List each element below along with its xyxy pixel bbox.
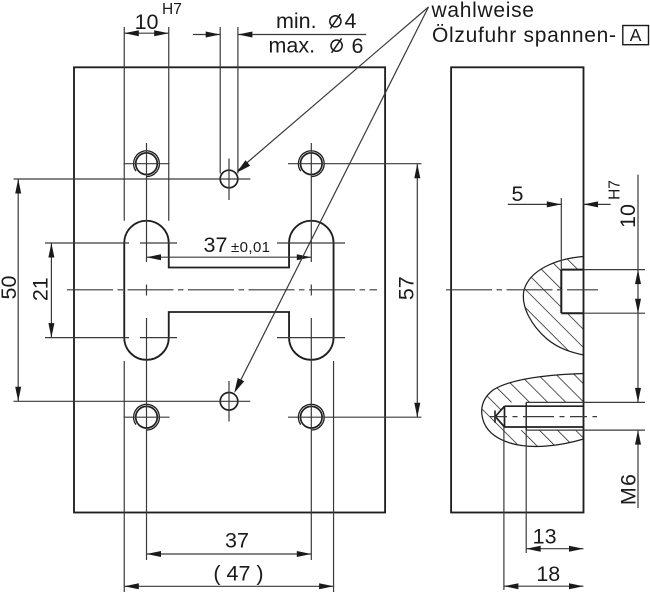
dim 13 line bbox=[526, 548, 583, 550]
hatch clear pocket bbox=[561, 270, 583, 314]
slot arc crosshair lower-right bbox=[277, 337, 345, 339]
bolt hole crosshair top-right + 57 extension bbox=[288, 163, 422, 165]
oil hole bottom vertical crosshair bbox=[228, 381, 230, 422]
dim 57 line bbox=[416, 164, 418, 418]
M6 core hole bbox=[505, 405, 584, 407]
bolt hole bottom-left bbox=[136, 406, 158, 428]
svg-text:Ölzufuhr spannen-: Ölzufuhr spannen- bbox=[432, 24, 617, 47]
bolt hole bottom-right bbox=[301, 406, 323, 428]
horizontal centerline left view bbox=[67, 289, 377, 291]
bolt hole crosshair bottom-left bbox=[124, 416, 170, 418]
oil hole top bbox=[220, 170, 238, 188]
svg-text:H7: H7 bbox=[162, 1, 182, 18]
slot arc crosshair upper-right bbox=[277, 242, 345, 244]
section hatch lower (M6 break-out) bbox=[482, 374, 584, 447]
right view centerline (slot) bbox=[446, 289, 598, 291]
break-out boundary lower bbox=[482, 374, 584, 447]
dim 5 extension line bbox=[560, 198, 562, 270]
dim 47 line bbox=[124, 585, 333, 587]
svg-text:50: 50 bbox=[0, 276, 21, 300]
svg-text:57: 57 bbox=[395, 276, 419, 300]
svg-text:±0,01: ±0,01 bbox=[231, 239, 270, 256]
vertical centerline right slots bbox=[310, 143, 312, 262]
dim 18 line bbox=[504, 585, 584, 587]
svg-text:37: 37 bbox=[225, 529, 249, 553]
extension line 50 bottom through oil hole bbox=[14, 400, 251, 402]
svg-text:H7: H7 bbox=[607, 180, 624, 200]
dim oil hole arrows bbox=[193, 34, 220, 36]
bolt hole crosshair top-left bbox=[124, 163, 170, 165]
pocket top edge + extension bbox=[561, 269, 583, 271]
dim 37 tol line bbox=[147, 256, 312, 258]
dim M6 lower tail bbox=[637, 430, 639, 508]
svg-text:max.: max. bbox=[269, 33, 316, 57]
svg-text:min.: min. bbox=[276, 9, 317, 33]
M6 drill cone bbox=[495, 406, 504, 427]
section hatch upper (slot break-out) bbox=[523, 257, 583, 356]
svg-text:wahlweise: wahlweise bbox=[431, 0, 535, 22]
hatch clear M6 hole bbox=[505, 402, 584, 430]
dim 47 extension lines bbox=[123, 361, 125, 592]
dim 13 extension line bbox=[525, 430, 527, 553]
dim 21 line bbox=[50, 243, 52, 338]
bolt hole top-right bbox=[301, 153, 323, 175]
dim 10 H7 extension lines bbox=[123, 27, 125, 221]
oil hole bottom bbox=[220, 393, 238, 411]
bolt hole top-left M? bbox=[136, 153, 158, 175]
dim 18 extension line bbox=[503, 427, 505, 590]
dim oil hole extension lines bbox=[219, 27, 221, 174]
dim 10 H7 vert line bbox=[637, 175, 639, 403]
right view outline bbox=[451, 67, 583, 512]
svg-text:10: 10 bbox=[616, 204, 640, 228]
pocket bottom edge + extension bbox=[561, 312, 583, 314]
extension line 50 top through oil hole bbox=[14, 178, 251, 180]
svg-text:A: A bbox=[630, 25, 642, 45]
M6 thread end line bbox=[525, 402, 527, 430]
svg-text:( 47 ): ( 47 ) bbox=[213, 562, 263, 586]
svg-text:6: 6 bbox=[352, 34, 364, 58]
M6 hole centerline bbox=[490, 416, 597, 418]
H-shaped slot cutout bbox=[124, 221, 333, 360]
bolt hole crosshair bottom-right + 57 extension bbox=[288, 416, 422, 418]
svg-text:4: 4 bbox=[345, 9, 357, 33]
break-out boundary upper bbox=[523, 257, 583, 356]
slot arc crosshair lower-left / 21 extension bottom bbox=[45, 337, 129, 339]
svg-text:M6: M6 bbox=[617, 473, 641, 505]
svg-text:21: 21 bbox=[29, 277, 53, 301]
svg-text:18: 18 bbox=[536, 562, 560, 586]
dim 10 H7 line bbox=[124, 32, 169, 34]
datum box A bbox=[623, 26, 649, 45]
leader to top oil hole bbox=[239, 7, 429, 170]
dim 37 bottom line bbox=[147, 553, 312, 555]
left view plate outline bbox=[74, 67, 385, 512]
M6 thread lines + extensions bbox=[526, 401, 645, 403]
svg-text:10: 10 bbox=[135, 10, 159, 34]
M6 drill tip tick bbox=[494, 411, 496, 423]
slot arc crosshair upper-left / 21 extension top bbox=[45, 242, 129, 244]
svg-text:13: 13 bbox=[533, 525, 557, 549]
dim 5 line bbox=[508, 203, 562, 205]
dim 50 line bbox=[17, 179, 19, 401]
leader to bottom oil hole bbox=[237, 7, 429, 389]
pocket depth edge bbox=[560, 270, 562, 314]
oil hole top vertical crosshair bbox=[228, 159, 230, 201]
svg-text:37: 37 bbox=[204, 233, 228, 257]
vertical centerline left slots bbox=[146, 143, 148, 262]
svg-text:5: 5 bbox=[512, 182, 524, 206]
